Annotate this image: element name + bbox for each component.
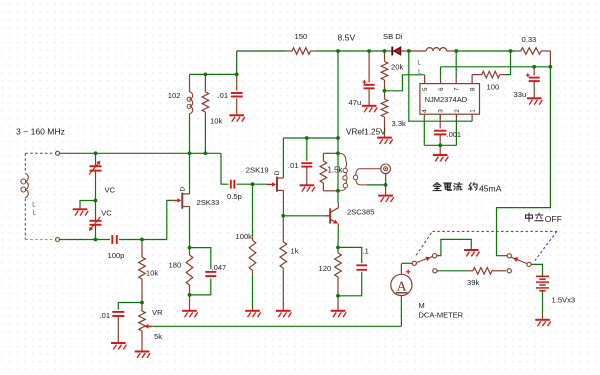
svg-text:3: 3 — [438, 109, 445, 113]
svg-text:VC: VC — [105, 185, 116, 194]
svg-text:2SC385: 2SC385 — [347, 207, 374, 216]
svg-text:5: 5 — [422, 87, 429, 91]
svg-text:20k: 20k — [391, 63, 403, 72]
svg-text:.01: .01 — [288, 161, 299, 170]
svg-text:6: 6 — [438, 87, 445, 91]
svg-text:VR: VR — [152, 308, 163, 317]
svg-text:10k: 10k — [146, 269, 158, 278]
svg-text:100: 100 — [487, 83, 500, 92]
svg-text:45mA: 45mA — [479, 184, 502, 194]
svg-text:.01: .01 — [218, 91, 229, 100]
svg-text:1.5k: 1.5k — [328, 166, 343, 175]
svg-text:VC: VC — [101, 208, 112, 217]
svg-text:10k: 10k — [210, 116, 222, 125]
svg-text:100p: 100p — [108, 251, 125, 260]
svg-text:.1: .1 — [363, 247, 369, 256]
svg-text:2SK19: 2SK19 — [246, 165, 269, 174]
svg-text:102: 102 — [168, 91, 181, 100]
svg-text:3.3k: 3.3k — [392, 119, 407, 128]
svg-text:180: 180 — [169, 261, 182, 270]
svg-text:OFF: OFF — [545, 214, 562, 224]
svg-text:L: L — [33, 210, 37, 217]
svg-text:D: D — [274, 170, 281, 175]
svg-text:7: 7 — [454, 87, 461, 91]
svg-text:0.5p: 0.5p — [227, 192, 242, 201]
svg-text:L: L — [417, 60, 421, 67]
svg-text:1: 1 — [470, 109, 477, 113]
svg-text:L: L — [32, 202, 36, 209]
svg-text:1.5Vx3: 1.5Vx3 — [552, 295, 576, 304]
svg-text:39k: 39k — [467, 278, 479, 287]
svg-text:.01: .01 — [100, 311, 111, 320]
svg-text:M: M — [419, 301, 425, 310]
svg-text:L: L — [418, 69, 422, 76]
svg-text:5k: 5k — [154, 332, 162, 341]
svg-text:2: 2 — [454, 109, 461, 113]
svg-text:3 ~ 160 MHz: 3 ~ 160 MHz — [16, 127, 65, 137]
svg-text:VRef1.25V: VRef1.25V — [346, 128, 386, 137]
svg-text:150: 150 — [295, 32, 308, 41]
svg-text:47u: 47u — [349, 98, 362, 107]
svg-text:120: 120 — [319, 264, 332, 273]
svg-text:4: 4 — [422, 109, 429, 113]
svg-text:0.33: 0.33 — [522, 35, 537, 44]
svg-text:NJM2374AD: NJM2374AD — [425, 95, 468, 104]
svg-text:8.5V: 8.5V — [338, 33, 356, 43]
svg-text:.047: .047 — [212, 263, 227, 272]
svg-text:1k: 1k — [291, 247, 299, 256]
svg-text:8: 8 — [470, 87, 477, 91]
svg-text:.001: .001 — [447, 130, 462, 139]
svg-text:2SK33: 2SK33 — [197, 198, 220, 207]
svg-text:100k: 100k — [236, 232, 253, 241]
svg-text:D: D — [179, 187, 186, 192]
svg-text:SB Di: SB Di — [383, 32, 403, 41]
svg-text:DCA-METER: DCA-METER — [419, 310, 464, 319]
svg-text:A: A — [397, 279, 407, 294]
svg-text:33u: 33u — [514, 90, 527, 99]
